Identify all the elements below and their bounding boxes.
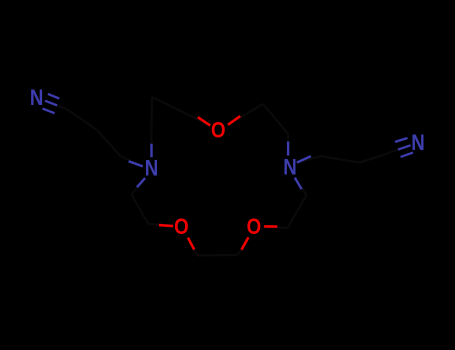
svg-text:O: O xyxy=(247,216,262,240)
wire O top right stub xyxy=(228,116,240,125)
wire N7 up stub xyxy=(150,144,152,158)
svg-text:N: N xyxy=(145,157,159,181)
wire O bottom-left left stub xyxy=(159,225,173,226)
wire N13 right stub xyxy=(297,156,311,162)
wire C5 to O top xyxy=(152,97,210,125)
wire N7 up to C4 xyxy=(150,134,152,144)
wire O left-bottom to C15 xyxy=(148,224,173,226)
wire N13 down to C11 xyxy=(295,178,307,195)
wire N13 up stub xyxy=(287,142,289,156)
svg-text:O: O xyxy=(211,119,226,143)
wire O top to C6 xyxy=(228,104,263,125)
wire O bottom-right down stub xyxy=(242,237,249,249)
wire N13 to C8 right arm xyxy=(297,156,321,162)
wire C8-C9 right arm xyxy=(321,156,359,163)
wire: dark carbon skeleton bonds (nearly invisible on black) xyxy=(45,97,398,255)
wire C16 up to N7 xyxy=(131,178,145,195)
svg-text:O: O xyxy=(174,216,189,240)
wire C6-C7 xyxy=(263,104,288,134)
wire C13-C14 bottom bridge xyxy=(197,254,238,257)
svg-text:N: N xyxy=(411,132,425,156)
wire nitrile C1 continuation left xyxy=(45,101,67,110)
wire O top left stub xyxy=(198,117,210,125)
wire C2-C3 left arm xyxy=(97,130,121,156)
triple bond C#N right (three parallel lines) xyxy=(395,138,413,157)
wire C9-C10 nitrile carbon xyxy=(359,153,388,163)
wire C11-C12 xyxy=(288,195,307,228)
wire C10 triple continuation xyxy=(389,150,398,153)
wire C3 to N7 xyxy=(121,156,143,166)
wire O bottom-left down stub xyxy=(188,238,194,250)
wire N7 left stub xyxy=(129,161,143,166)
wire N13 down-right stub xyxy=(295,178,302,190)
wire N7 down-left stub xyxy=(137,178,145,187)
svg-text:N: N xyxy=(30,87,44,111)
blue bond stubs near nitrogens xyxy=(129,142,311,190)
red bond stubs near oxygens xyxy=(159,116,277,250)
triple bond C#N left (three parallel lines) xyxy=(43,94,60,113)
wire C12 to O right-bottom xyxy=(263,227,288,229)
wire C7 down to N13 xyxy=(287,134,289,148)
wire C4-C5 xyxy=(150,97,153,134)
wire C14 up to O left-bottom xyxy=(188,238,197,256)
wire O right-bottom down to C13 xyxy=(238,237,249,255)
svg-text:N: N xyxy=(283,156,297,180)
wire O bottom-right right stub xyxy=(264,225,277,228)
wire C15-C16 xyxy=(131,195,148,225)
wire C1-C2 left arm xyxy=(67,109,97,130)
